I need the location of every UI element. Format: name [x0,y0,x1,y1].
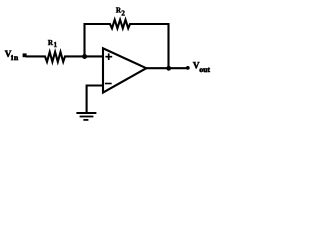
svg-text:out: out [199,65,210,74]
svg-text:1: 1 [54,42,58,49]
svg-text:in: in [11,53,19,62]
svg-text:2: 2 [121,9,125,17]
